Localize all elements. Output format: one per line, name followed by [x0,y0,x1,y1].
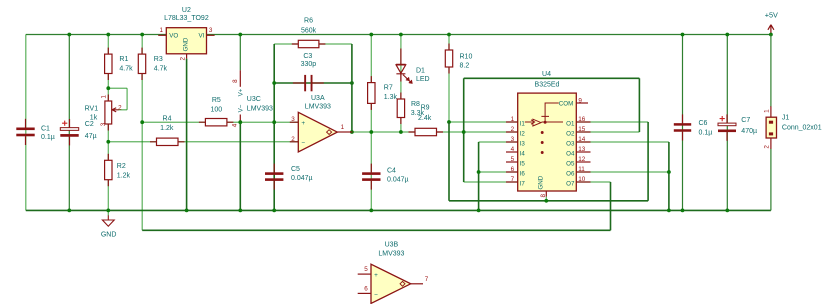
resistor R7 [370,76,372,110]
resistor R1 [107,48,109,80]
svg-text:C4: C4 [387,167,396,174]
svg-text:RV1: RV1 [85,106,99,113]
capacitor C3 horizontal [293,82,304,84]
junction RV1 top [106,86,110,90]
junction O3O6 ground [667,209,671,213]
pin 10 O7 [576,181,590,183]
svg-text:C7: C7 [741,117,750,124]
svg-text:4: 4 [231,123,238,127]
svg-text:I4: I4 [520,150,526,157]
junction R10 bottom I1 node [447,120,451,124]
op-amp U3A LMV393 [290,121,299,123]
svg-text:O6: O6 [566,170,575,177]
junction C2 top [67,33,71,37]
junction feedback at output [350,130,354,134]
wire C2 branch [68,35,70,211]
svg-text:47µ: 47µ [85,133,97,140]
svg-text:560k: 560k [301,28,317,35]
op-amp U3B LMV393 unused unit [358,273,371,275]
svg-text:0.047µ: 0.047µ [387,176,409,183]
pin 2 I2 [506,131,518,133]
resistor R4 [150,141,185,143]
wire C3 row [274,82,352,84]
svg-text:R1: R1 [119,56,128,63]
svg-text:330p: 330p [301,61,317,68]
junction R7 top [369,33,373,37]
svg-text:B325Ed: B325Ed [535,82,560,89]
svg-text:0.1µ: 0.1µ [699,130,713,137]
svg-text:14: 14 [578,136,586,143]
svg-text:13: 13 [578,146,586,153]
pin 13 O4 [576,151,590,153]
svg-text:O5: O5 [566,160,575,167]
svg-text:L78L33_TO92: L78L33_TO92 [164,15,209,22]
svg-text:GND: GND [537,175,544,189]
svg-text:3: 3 [100,122,107,126]
junction C4 ground [369,209,373,213]
svg-text:C6: C6 [699,120,708,127]
junction I3I6 ground [477,209,481,213]
junction U2 pin2 bottom [185,209,189,213]
junction I2 node [462,130,466,134]
svg-text:2: 2 [291,136,295,143]
op-amp power unit U3C LMV393 [239,35,241,71]
wire comparator output row [353,131,518,133]
svg-text:470µ: 470µ [741,128,757,135]
svg-text:LED: LED [416,76,430,83]
svg-text:GND: GND [182,37,189,51]
wire I2-O2 loop over U4 [463,78,465,182]
capacitor C2 polarized [69,119,71,128]
wire R7 branch [370,35,372,133]
svg-text:1.2k: 1.2k [160,125,174,132]
resistor R6 [292,43,326,45]
svg-text:Conn_02x01: Conn_02x01 [782,125,822,132]
right top rail wire (+5V rail) [207,34,771,36]
svg-text:1: 1 [101,95,108,99]
svg-text:V−: V− [238,104,245,112]
svg-text:R10: R10 [460,53,473,60]
svg-text:2: 2 [118,105,122,112]
wire R10 branch [448,35,450,123]
svg-text:C2: C2 [85,121,94,128]
capacitor C1 [25,119,27,128]
wire I3 I6 ground tie [478,142,480,210]
pin 1 I1 [506,121,518,123]
junction R8 output row [399,130,403,134]
pin 15 O2 [576,131,590,133]
resistor R5 [199,121,234,123]
svg-text:1: 1 [763,109,770,113]
connector J1 Conn_02x01 [770,106,772,117]
svg-text:4: 4 [511,146,515,153]
junction R7 output row [369,130,373,134]
pin 3 I3 [506,141,518,143]
svg-text:−: − [374,291,378,298]
junction I6 [477,170,481,174]
resistor R8 [400,93,402,125]
svg-text:7: 7 [511,176,515,183]
svg-text:R6: R6 [304,18,313,25]
pin 5 I5 [506,161,518,163]
svg-text:6: 6 [511,166,515,173]
ground symbol GND [107,210,109,215]
resistor R10 [448,44,450,74]
junction C3 left [272,81,276,85]
junction R3 top [140,33,144,37]
wire U2 pin2 to ground rail [186,54,188,59]
svg-text:LMV393: LMV393 [378,250,404,257]
LED D1 [400,49,402,65]
svg-text:VO: VO [169,33,178,40]
junction C6 top [681,33,685,37]
bottom GND rail wire [26,209,771,211]
svg-text:U4: U4 [542,71,551,78]
junction R1 top [106,33,110,37]
capacitor C5 [273,164,275,173]
svg-text:6: 6 [364,286,368,293]
svg-text:R8: R8 [411,101,420,108]
junction R2 bottom [106,209,110,213]
svg-text:C5: C5 [291,166,300,173]
wire C1 branch [25,35,27,211]
svg-text:2: 2 [764,145,771,149]
svg-text:+: + [301,120,305,127]
svg-text:V+: V+ [238,88,245,96]
svg-text:15: 15 [578,126,586,133]
wire I3 row [479,141,518,143]
svg-text:O4: O4 [566,150,575,157]
wire inverting row R4 [108,141,298,143]
wire feedback right vertical [351,44,353,132]
wire R1 RV1 R2 branch [107,35,109,211]
svg-text:1.3k: 1.3k [384,94,398,101]
svg-text:C3: C3 [303,53,312,60]
svg-text:O3: O3 [566,140,575,147]
svg-text:O7: O7 [566,180,575,187]
pin 14 O3 [576,141,590,143]
junction R3 bottom node [140,120,144,124]
svg-text:1: 1 [341,124,345,131]
svg-text:4.7k: 4.7k [154,66,168,73]
capacitor C7 polarized [726,114,728,123]
svg-text:LMV393: LMV393 [305,104,331,111]
wire C4 branch to ground [370,132,372,210]
wire O6 row [576,171,669,173]
U4 internal common diode graphic [525,103,559,124]
svg-text:COM: COM [559,101,573,108]
svg-text:11: 11 [578,166,585,173]
svg-text:100: 100 [210,106,222,113]
wire I6 row [479,171,518,173]
junction C5 ground [272,209,276,213]
junction C7 top [725,33,729,37]
svg-text:I1: I1 [520,120,526,127]
junction C2 bottom [67,209,71,213]
potentiometer RV1 [107,95,109,131]
wire +5V down to J1 and ground rail up to J1 [770,35,772,108]
svg-text:O2: O2 [566,130,575,137]
svg-text:0.1µ: 0.1µ [41,134,55,141]
pin 12 O5 [576,161,590,163]
pin 6 I6 [506,171,518,173]
svg-text:0.047µ: 0.047µ [291,175,313,182]
svg-text:I2: I2 [520,130,526,137]
pin 9 COM [576,102,588,104]
svg-text:+5V: +5V [765,10,778,19]
svg-text:9: 9 [578,97,582,104]
svg-text:R4: R4 [163,115,172,122]
wire O1 return loop around U4 bottom [448,122,450,201]
svg-text:R7: R7 [384,85,393,92]
junction C7 bottom [725,209,729,213]
svg-text:8: 8 [232,79,239,83]
junction R10 top [447,33,451,37]
svg-text:3: 3 [209,27,213,34]
svg-text:8.2: 8.2 [460,62,470,69]
svg-text:4.7k: 4.7k [119,66,133,73]
wire O2 row [576,131,639,133]
svg-text:O1: O1 [566,120,575,127]
svg-text:D1: D1 [416,67,425,74]
svg-text:VI: VI [198,33,204,40]
wire U3C V- to ground rail [239,122,241,210]
wire C7 branch [726,35,728,211]
svg-text:2: 2 [180,57,187,61]
wire O3 row to ground [576,141,669,143]
junction D1 top [399,33,403,37]
capacitor C6 [682,114,684,123]
wire I1 row to U4 [449,121,518,123]
voltage regulator U2 L78L33_TO92 [158,34,166,36]
svg-text:U2: U2 [182,7,191,14]
pin 11 O6 [576,171,590,173]
wire D1 R8 branch [400,35,402,133]
svg-text:−: − [301,139,305,146]
wire feedback top R6 row [274,43,352,45]
junction RV1 bottom node [106,140,110,144]
junction +5V corner [769,33,773,37]
svg-text:3.3k: 3.3k [411,110,425,117]
wire R3 branch down to O7 loop [141,35,143,231]
U4 internal channel dots [541,131,544,134]
pin 8 GND of U4 [545,191,547,197]
wire O7 row loop to R3 node [576,181,610,183]
svg-text:J1: J1 [782,114,790,121]
Darlington array U4 B325Ed [518,93,577,191]
svg-text:I7: I7 [520,180,526,187]
svg-text:+: + [374,272,378,279]
svg-text:1: 1 [511,116,515,123]
svg-text:8: 8 [540,194,547,198]
svg-text:7: 7 [425,276,429,283]
left top rail wire (3.3V rail) [26,34,167,36]
svg-text:R5: R5 [212,97,221,104]
svg-text:5: 5 [511,156,515,163]
wire I7 row [464,181,518,183]
junction feedback tap on +input row [272,120,276,124]
pin 7 I7 [506,181,518,183]
svg-text:I3: I3 [520,140,526,147]
svg-text:5: 5 [364,266,368,273]
svg-text:3: 3 [511,136,515,143]
resistor R9 [409,131,444,133]
svg-text:12: 12 [578,156,586,163]
svg-text:LMV393: LMV393 [247,106,273,113]
svg-text:R2: R2 [117,163,126,170]
junction C6 bottom [681,209,685,213]
svg-text:I6: I6 [520,170,526,177]
junction U3C ground [238,209,242,213]
svg-text:R3: R3 [154,56,163,63]
svg-text:GND: GND [101,232,117,239]
wire C5 branch to ground [273,122,275,210]
svg-text:C1: C1 [41,125,50,132]
junction O6 [667,170,671,174]
capacitor C4 [370,164,372,173]
svg-text:U3C: U3C [247,96,261,103]
svg-text:1k: 1k [90,115,98,122]
junction U3C on +input row [238,120,242,124]
svg-text:3: 3 [291,116,295,123]
svg-text:16: 16 [578,116,586,123]
svg-text:1.2k: 1.2k [117,173,131,180]
wire hysteresis feedback left vertical [273,44,275,122]
pin 4 I4 [506,151,518,153]
resistor R3 [141,48,143,80]
wire RV1 wiper loop [118,109,127,111]
+5V power symbol [768,25,774,34]
wire comparator +input row [142,121,298,123]
wire C6 branch [682,35,684,211]
junction C3 right [350,81,354,85]
svg-text:2: 2 [511,126,515,133]
pin 16 O1 [576,121,590,123]
svg-text:I5: I5 [520,160,526,167]
svg-text:U3B: U3B [385,242,399,249]
junction U4 GND pin on loop [544,199,548,203]
svg-text:U3A: U3A [311,95,325,102]
resistor R2 [107,154,109,186]
svg-text:10: 10 [578,176,586,183]
svg-text:1: 1 [160,27,164,34]
